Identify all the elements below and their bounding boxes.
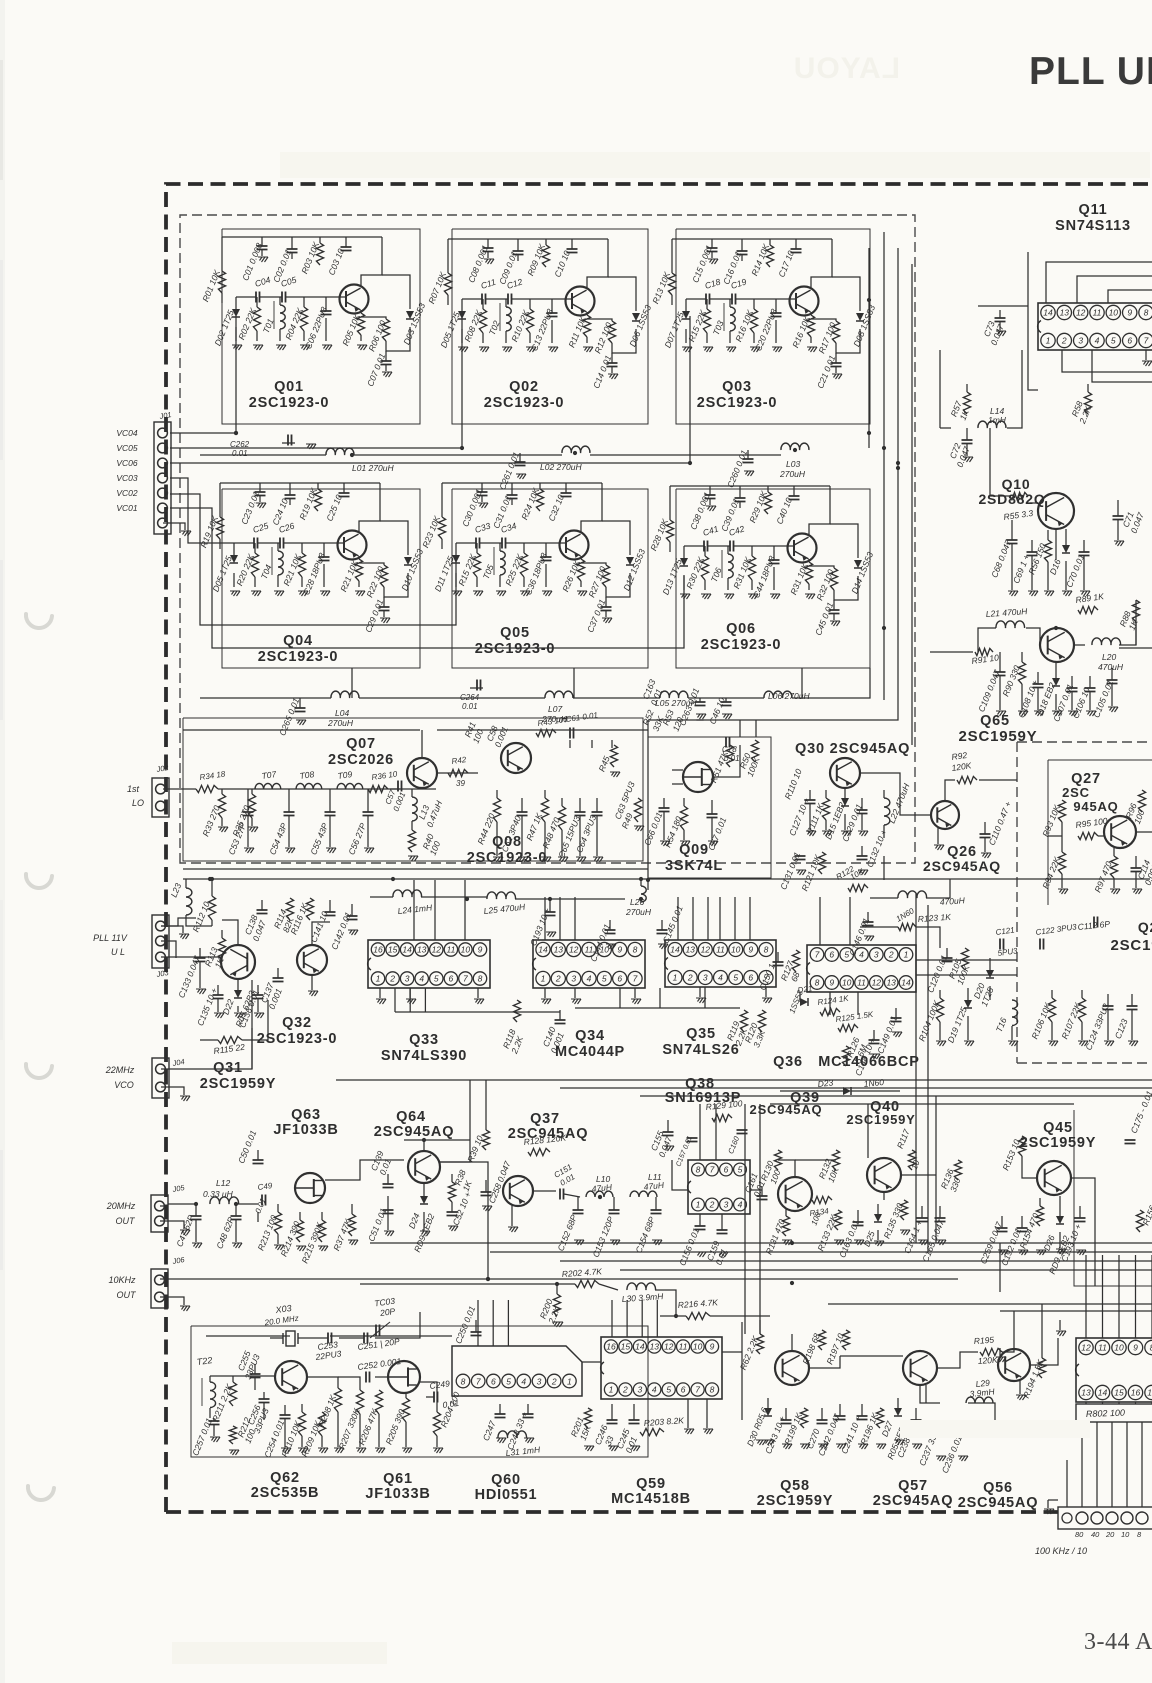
svg-text:VC05: VC05 xyxy=(116,443,138,453)
wire Q10 feed xyxy=(990,428,1010,496)
svg-text:VC04: VC04 xyxy=(116,428,138,438)
diode D19 1T25 xyxy=(964,1000,972,1008)
capacitor C263 0.01 xyxy=(699,698,701,702)
svg-text:470uH: 470uH xyxy=(939,895,966,907)
wire Q33 interconnect xyxy=(394,988,396,1012)
resistor R215 390K xyxy=(321,1212,323,1220)
wire rail drop left Q04 xyxy=(219,483,221,517)
wire VCC bus row1 xyxy=(200,454,326,456)
svg-text:LAYOU: LAYOU xyxy=(793,52,900,85)
wire Q07 to Q08 xyxy=(437,772,478,774)
svg-text:6: 6 xyxy=(617,974,622,984)
resistor R15 22K Q05 xyxy=(476,543,478,553)
inductor L26 270uH xyxy=(640,880,642,886)
resistor R31 10K Q06 xyxy=(808,559,810,562)
svg-text:5: 5 xyxy=(434,974,439,984)
svg-text:1: 1 xyxy=(1046,336,1051,346)
svg-text:2: 2 xyxy=(888,950,894,960)
capacitor C256 33PU3 xyxy=(263,1392,265,1399)
wire bias Q03 xyxy=(671,295,673,305)
resistor R112 10 xyxy=(208,896,215,920)
svg-text:Q56: Q56 xyxy=(983,1480,1013,1496)
wire collector Q03 xyxy=(811,239,832,288)
svg-text:C78: C78 xyxy=(722,745,737,754)
binder punch-hole shadow 1 xyxy=(26,614,52,628)
svg-text:11: 11 xyxy=(679,1342,688,1352)
resistor R132 10K xyxy=(832,1150,839,1170)
svg-text:14: 14 xyxy=(538,945,548,955)
connector J01 xyxy=(154,422,171,534)
capacitor C136 0.01 xyxy=(257,985,259,995)
capacitor C54 43P xyxy=(288,789,290,812)
capacitor C252 0.001 xyxy=(366,1372,370,1383)
outer dashed board boundary xyxy=(166,184,1152,1512)
wire collector Q02 xyxy=(587,239,608,288)
svg-text:12: 12 xyxy=(701,945,711,955)
svg-text:U L: U L xyxy=(111,947,125,957)
capacitor C70 0.01 xyxy=(1083,540,1085,552)
capacitor C159 0.01 xyxy=(721,1214,723,1230)
resistor R43 100 xyxy=(536,729,556,736)
wire rail drop left Q01 xyxy=(221,237,223,271)
svg-text:39: 39 xyxy=(456,779,465,788)
capacitor C152 68P xyxy=(577,1197,579,1210)
wire bias Q06 xyxy=(669,542,671,552)
svg-text:D23: D23 xyxy=(817,1077,834,1089)
wire mid risers right xyxy=(935,1096,937,1243)
diode D16 xyxy=(1062,545,1070,553)
svg-text:4: 4 xyxy=(859,950,864,960)
svg-text:8: 8 xyxy=(478,974,483,984)
wire VC02 net xyxy=(170,494,456,625)
box around Q05 xyxy=(452,489,648,668)
capacitor C192 0.01 xyxy=(1021,1216,1023,1228)
svg-text:945AQ: 945AQ xyxy=(1073,799,1118,814)
diode D30 xyxy=(764,1408,772,1416)
inductor L12 0.33uH xyxy=(168,1203,196,1205)
box around Q01 xyxy=(222,229,420,424)
capacitor C237 33 xyxy=(939,1420,941,1432)
resistor R07 10K Q02 xyxy=(444,273,451,295)
wire rail drop left Q05 xyxy=(441,483,443,517)
resistor R17 100 Q03 xyxy=(811,319,836,321)
inductor L11 47uH xyxy=(630,1191,657,1197)
wire Q65 base feed xyxy=(930,651,973,653)
svg-text:VC03: VC03 xyxy=(116,473,138,483)
diode D14 1SS53 Q06 xyxy=(834,576,858,600)
capacitor C10 10 Q02 xyxy=(571,239,573,249)
resistor R39 10 xyxy=(482,1130,489,1150)
resistor R91 10 xyxy=(975,648,993,655)
transistor Q07 xyxy=(407,758,437,788)
svg-text:2SC2026: 2SC2026 xyxy=(328,752,394,768)
svg-text:1N60: 1N60 xyxy=(863,1077,885,1089)
left page edge shading xyxy=(0,0,5,1683)
capacitor C270 0.047 xyxy=(821,1408,823,1420)
inductor L10 47uH xyxy=(586,1191,613,1197)
svg-text:2SC1923-0: 2SC1923-0 xyxy=(258,649,339,665)
svg-text:80: 80 xyxy=(1075,1530,1084,1539)
svg-text:4: 4 xyxy=(521,1377,526,1387)
capacitor C19 Q03 xyxy=(710,298,732,300)
wire bottom bundle 4 xyxy=(620,1269,1152,1271)
svg-text:10KHz: 10KHz xyxy=(108,1275,136,1285)
wire top rail Q06 xyxy=(670,485,830,487)
capacitor C18 Q03 xyxy=(686,298,706,300)
capacitor C135 10 xyxy=(217,985,219,995)
svg-text:1: 1 xyxy=(376,974,381,984)
inductor L05 270uH xyxy=(660,691,688,698)
capacitor C38 0.001 Q06 xyxy=(709,486,711,495)
resistor R210 10K xyxy=(301,1404,303,1412)
resistor R50 100K xyxy=(751,740,758,762)
binder punch-hole shadow 2 xyxy=(26,874,52,888)
capacitor C58 0.001 cluster xyxy=(569,740,571,748)
connector J04 xyxy=(152,1058,169,1098)
diode D07 1T25 Q03 xyxy=(685,299,687,311)
svg-text:Q03: Q03 xyxy=(722,379,752,395)
wire J05 to L12 xyxy=(160,1205,168,1207)
diode D13 1T25 Q06 xyxy=(683,546,685,558)
svg-text:LO: LO xyxy=(132,798,144,808)
transistor Q61 JFET xyxy=(388,1361,420,1393)
capacitor C73 0.047 xyxy=(999,310,1001,318)
svg-text:1: 1 xyxy=(541,974,546,984)
capacitor C107 0.01 xyxy=(1071,676,1073,688)
svg-text:13: 13 xyxy=(685,945,695,955)
wire 1st LO feed xyxy=(163,788,196,790)
wire top rail Q03 xyxy=(672,238,832,240)
capacitor C133 0.047 xyxy=(199,948,201,958)
svg-text:T07: T07 xyxy=(261,769,277,781)
capacitor C39 0.01 Q06 xyxy=(739,486,741,498)
svg-text:7: 7 xyxy=(463,974,468,984)
svg-text:9: 9 xyxy=(1127,308,1132,318)
capacitor C261 0.01 xyxy=(519,453,521,462)
coil T05 Q05 xyxy=(499,543,501,551)
svg-text:Q33: Q33 xyxy=(409,1032,439,1048)
svg-text:SN74LS26: SN74LS26 xyxy=(662,1042,739,1058)
svg-text:Q61: Q61 xyxy=(383,1471,413,1487)
svg-text:12: 12 xyxy=(1081,1343,1091,1353)
svg-text:4: 4 xyxy=(718,973,723,983)
resistor R203 8.2K xyxy=(640,1428,664,1435)
capacitor C44 18PU3 Q06 xyxy=(773,546,775,560)
wire Q64 top xyxy=(423,1140,425,1151)
capacitor C120 0.01 xyxy=(946,948,948,958)
resistor R129 100 xyxy=(712,1114,732,1121)
resistor R156 2.2K xyxy=(1136,1210,1143,1232)
transistor Q02 xyxy=(566,287,595,316)
resistor R34 18 xyxy=(196,785,218,792)
wire mid bundle 4 xyxy=(770,1103,1074,1105)
wire Q26 collector xyxy=(945,780,955,801)
svg-text:R802 100: R802 100 xyxy=(1086,1408,1125,1419)
svg-text:0.01: 0.01 xyxy=(724,754,740,763)
svg-text:2SC1959Y: 2SC1959Y xyxy=(1020,1135,1097,1151)
capacitor C241 10 xyxy=(861,1404,863,1416)
ground Q34 pins xyxy=(544,988,546,998)
capacitor C141 10 xyxy=(329,900,331,912)
transistor Q09 dual-gate FET xyxy=(683,762,713,792)
resistor R48 470 xyxy=(561,798,563,806)
connector J02 xyxy=(152,778,169,817)
resistor R15 22K Q03 xyxy=(706,299,708,309)
resistor R04 22K Q01 xyxy=(303,297,305,307)
diode D05 1T25 Q02 xyxy=(461,299,463,311)
svg-text:Q35: Q35 xyxy=(686,1026,716,1042)
capacitor C142 0.01 xyxy=(351,904,353,916)
svg-text:0.33 uH: 0.33 uH xyxy=(203,1189,234,1199)
svg-text:Q10: Q10 xyxy=(1002,476,1031,492)
svg-text:Q2: Q2 xyxy=(1138,919,1152,935)
capacitor C26 Q04 xyxy=(258,542,280,544)
resistor R38 1K xyxy=(451,1174,453,1182)
capacitor C253 22PU3 xyxy=(328,1333,332,1344)
wire bottom cluster rail xyxy=(206,1335,290,1337)
svg-text:1: 1 xyxy=(609,1385,614,1395)
capacitor C146 0.01 xyxy=(867,912,869,922)
resistor R114 82K xyxy=(286,898,293,920)
resistor R211 2.2K xyxy=(229,1382,236,1406)
transistor Q37 xyxy=(503,1176,533,1206)
resistor R36 10 xyxy=(368,785,388,792)
transistor Q32b xyxy=(297,945,327,975)
coil T03 Q03 xyxy=(729,299,731,307)
capacitor C108 10 xyxy=(1037,672,1039,684)
coil T06 Q06 xyxy=(727,546,729,554)
svg-text:Q32: Q32 xyxy=(282,1015,312,1031)
resistor R21 10K Q04 xyxy=(301,543,303,553)
wire Q57 emitter xyxy=(925,1385,927,1403)
svg-text:270uH: 270uH xyxy=(779,469,806,479)
wire left riser to bottom xyxy=(195,1203,197,1205)
transistor Q26 xyxy=(931,801,959,829)
svg-text:2SC945AQ: 2SC945AQ xyxy=(958,1495,1039,1511)
resistor R106 10K xyxy=(1051,990,1053,998)
svg-text:120K: 120K xyxy=(977,1355,998,1366)
capacitor C06 22PU3 Q01 xyxy=(325,297,327,311)
svg-text:10: 10 xyxy=(600,945,610,955)
wire bottom right bundle xyxy=(828,1303,1152,1305)
svg-text:13: 13 xyxy=(554,945,564,955)
capacitor C257 0.01 xyxy=(213,1418,215,1421)
wire J06 output run xyxy=(160,1162,488,1279)
svg-text:2SC945AQ: 2SC945AQ xyxy=(873,1493,954,1509)
svg-text:7: 7 xyxy=(1144,336,1149,346)
resistor R212 100 xyxy=(229,1426,236,1444)
resistor R19 10K Q04 xyxy=(216,517,223,539)
wire Q27 outputs xyxy=(1136,831,1152,833)
box around Q07 Q08 filter row xyxy=(183,718,643,861)
wire Q31 emitter run xyxy=(200,1039,218,1041)
resistor R40 100 xyxy=(408,830,415,852)
resistor R105 100K xyxy=(961,948,968,970)
capacitor C62 3P40 xyxy=(521,798,523,812)
capacitor C41 Q06 xyxy=(684,545,704,547)
capacitor C150 1 xyxy=(777,952,779,962)
resistor R13 10K Q03 xyxy=(668,273,675,295)
resistor R16 10K Q03 xyxy=(810,312,812,315)
wire collector Q04 xyxy=(359,483,380,532)
transistor Q30 xyxy=(830,758,860,788)
capacitor C122 3PU3 xyxy=(1040,939,1044,950)
wire right margin vertical A xyxy=(915,894,917,1243)
capacitor C65 15PU3 xyxy=(579,798,581,812)
svg-text:9: 9 xyxy=(1133,1343,1138,1353)
wire mid bundle 3 xyxy=(640,1095,1152,1097)
resistor R33 270 xyxy=(221,789,223,794)
capacitor C08 0.001 Q02 xyxy=(487,239,489,248)
resistor R120 3.3K xyxy=(758,1010,765,1032)
capacitor C149 0.01 xyxy=(895,1008,897,1018)
svg-text:12: 12 xyxy=(1076,308,1086,318)
svg-text:Q58: Q58 xyxy=(780,1478,810,1494)
svg-text:5: 5 xyxy=(1111,336,1116,346)
svg-text:Q59: Q59 xyxy=(636,1476,666,1492)
svg-text:Q63: Q63 xyxy=(291,1107,321,1123)
capacitor C144 0.01 xyxy=(609,920,611,930)
resistor R32 100 Q06 xyxy=(809,566,834,568)
IC Q33 SN74LS390 xyxy=(368,940,490,988)
junction dots xyxy=(486,1277,490,1281)
ground Q33 pins xyxy=(379,988,381,998)
capacitor C242 0.047 xyxy=(839,1404,841,1416)
diode D18 xyxy=(1052,678,1060,686)
svg-text:10: 10 xyxy=(1109,308,1119,318)
svg-text:8: 8 xyxy=(764,945,769,955)
capacitor C24 10 Q04 xyxy=(289,483,291,495)
wire L14 to Q11 xyxy=(1007,350,1022,428)
resistor R21 10K Q04 xyxy=(358,556,360,559)
capacitor C42 Q06 xyxy=(708,545,730,547)
capacitor C248 33 xyxy=(527,1404,529,1414)
capacitor C78 0.01 xyxy=(726,737,730,748)
svg-text:10: 10 xyxy=(842,978,852,988)
resistor R134 100 xyxy=(812,1196,832,1203)
capacitor C64 3PU3 xyxy=(596,798,598,812)
svg-text:2SC535B: 2SC535B xyxy=(251,1485,319,1501)
inductor L01 270uH xyxy=(326,448,354,455)
coil L13 0.47uH xyxy=(411,789,413,797)
wire Q33 top risers xyxy=(413,880,415,940)
wire rail drop left Q03 xyxy=(671,239,673,273)
capacitor C37 0.01 Q05 xyxy=(605,597,607,607)
svg-text:8: 8 xyxy=(633,945,638,955)
capacitor C46 10 xyxy=(725,698,727,702)
transistor Q06 xyxy=(788,534,817,563)
capacitor C59 0.001 cluster xyxy=(591,740,593,748)
resistor R206 47K xyxy=(375,1390,382,1414)
wire rail drop left Q06 xyxy=(669,486,671,520)
wire Q65 out xyxy=(1074,644,1085,646)
capacitor C04 Q01 xyxy=(236,296,256,298)
resistor R194 1.5K xyxy=(1038,1358,1045,1378)
capacitor C48 62P xyxy=(235,1204,237,1216)
wire VC05 net xyxy=(170,316,462,448)
ground bottom connector xyxy=(1047,1500,1049,1508)
svg-text:L03: L03 xyxy=(786,459,800,469)
capacitor C50 0.01 xyxy=(257,1212,259,1222)
capacitor C129 0.01 xyxy=(861,798,863,810)
box around Q06 xyxy=(676,489,870,668)
transistor Q32a xyxy=(221,945,255,979)
resistor R199 1K xyxy=(800,1408,807,1428)
transistor Q10 xyxy=(1038,493,1074,529)
svg-text:2SC1923-0: 2SC1923-0 xyxy=(475,641,556,657)
svg-text:Q37: Q37 xyxy=(530,1111,560,1127)
capacitor C33 Q05 xyxy=(456,542,476,544)
svg-text:15: 15 xyxy=(388,945,398,955)
svg-text:14: 14 xyxy=(1098,1388,1108,1398)
wire PLL11V to L23 xyxy=(161,918,196,926)
resistor R14 10K Q03 xyxy=(769,239,771,245)
svg-text:2SC: 2SC xyxy=(1062,785,1090,800)
svg-text:14: 14 xyxy=(635,1342,645,1352)
resistor R19 10K Q04 xyxy=(317,483,319,489)
wire Q56 risers xyxy=(1013,1311,1015,1349)
svg-text:16: 16 xyxy=(1131,1388,1141,1398)
wire filter row xyxy=(218,788,436,790)
inductor L23 xyxy=(185,879,187,888)
resistor R01 10K Q01 xyxy=(218,271,225,293)
IC Q35 SN74LS26 xyxy=(665,940,776,987)
wire VC06 net xyxy=(170,316,690,463)
svg-text:6: 6 xyxy=(449,974,454,984)
wire Q59 feeds xyxy=(611,1300,613,1337)
svg-text:5: 5 xyxy=(733,973,738,983)
capacitor C258 0.047 xyxy=(485,1180,487,1192)
resistor R133 22K xyxy=(834,1210,841,1230)
wire mid bundle 1 xyxy=(336,1079,1152,1081)
wire 22MHz out xyxy=(161,980,252,1069)
diode D27 xyxy=(894,1408,902,1416)
transistor Q58 xyxy=(775,1351,809,1385)
capacitor C55 43P xyxy=(329,789,331,812)
svg-text:6: 6 xyxy=(829,950,834,960)
resistor R05 10K Q01 xyxy=(360,310,362,313)
resistor R201 15K xyxy=(584,1408,591,1428)
wire bottom bundle 3 xyxy=(560,1260,1152,1262)
ground Q56 emitter xyxy=(1019,1380,1021,1394)
resistor R30 22K Q06 xyxy=(704,546,706,556)
ground at J06 pin2 xyxy=(160,1297,184,1305)
svg-text:2: 2 xyxy=(687,973,693,983)
capacitor C250 0.01 xyxy=(475,1320,477,1332)
svg-text:22MHz: 22MHz xyxy=(105,1065,135,1075)
transistor Q62 xyxy=(275,1361,307,1393)
capacitor C175 0.01 xyxy=(1125,1140,1136,1144)
svg-text:MC14518B: MC14518B xyxy=(611,1491,691,1507)
svg-text:10: 10 xyxy=(1114,1343,1124,1353)
wire bottom bundle 2 xyxy=(490,1251,1152,1253)
wire Q55 feeds xyxy=(1085,1255,1087,1338)
resistor R154 470 xyxy=(1039,1198,1041,1206)
resistor R49 xyxy=(634,798,641,822)
svg-text:Q02: Q02 xyxy=(509,379,539,395)
wire X03 link xyxy=(298,1337,328,1339)
svg-text:R195: R195 xyxy=(973,1335,994,1346)
resistor R213 100 xyxy=(277,1204,279,1212)
connector J03 xyxy=(152,915,169,968)
transistor Q04 xyxy=(338,531,367,560)
inductor L29 3.9mH xyxy=(966,1397,993,1403)
capacitor C15 0.001 Q03 xyxy=(711,239,713,248)
wire Q56 out xyxy=(1030,1338,1058,1365)
capacitor C132 10 xyxy=(861,846,863,856)
capacitor C238 0.01 xyxy=(915,1408,917,1420)
wire mixer bus xyxy=(883,856,885,880)
